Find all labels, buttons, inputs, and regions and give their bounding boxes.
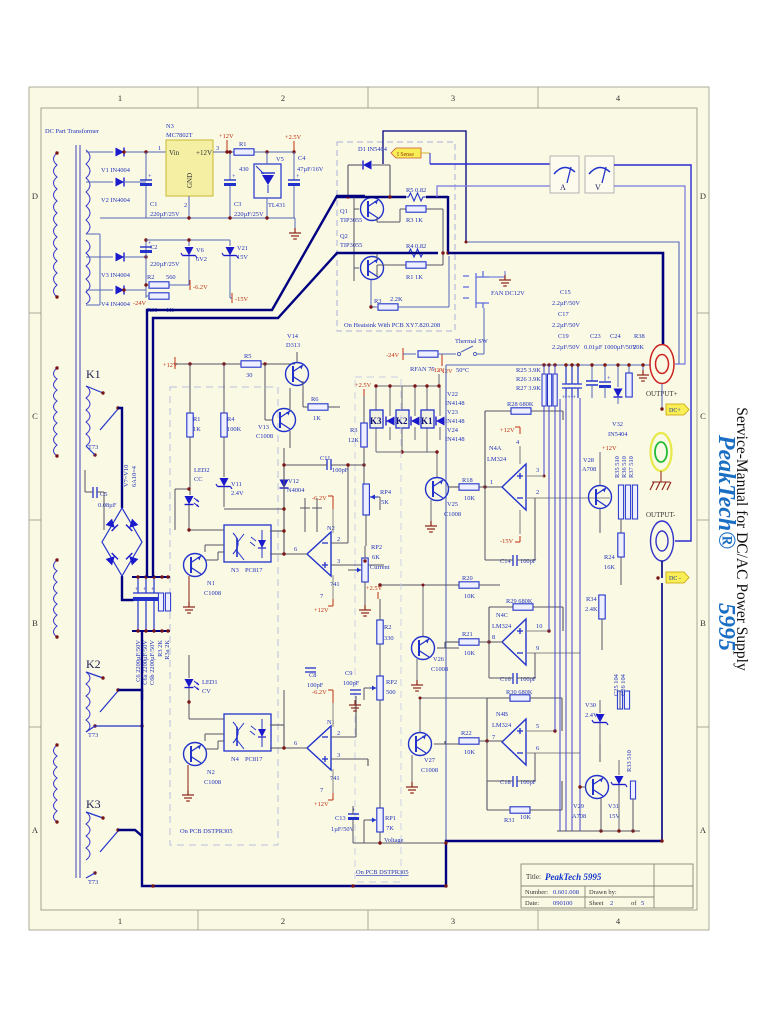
svg-text:PeakTech 5995: PeakTech 5995	[545, 872, 602, 882]
svg-text:LM324: LM324	[492, 722, 512, 729]
svg-text:+: +	[143, 586, 147, 593]
svg-text:D1 IN5404: D1 IN5404	[358, 146, 388, 153]
svg-text:C9: C9	[345, 670, 352, 677]
bridge diodes	[106, 519, 118, 531]
diode V12 N4004	[280, 480, 289, 489]
electrolytic caps C6 C6a C6b	[133, 577, 159, 631]
svg-text:N4C: N4C	[496, 612, 508, 619]
svg-text:5: 5	[536, 723, 539, 730]
svg-text:R3 1K: R3 1K	[406, 217, 423, 224]
svg-text:Number:: Number:	[525, 889, 548, 896]
resistor R2 560	[149, 282, 169, 288]
svg-text:T73: T73	[88, 732, 98, 739]
svg-text:A708: A708	[572, 813, 586, 820]
svg-text:+12V: +12V	[196, 149, 212, 157]
cap C23	[591, 365, 593, 381]
wire box to R1	[213, 151, 294, 153]
bus bank to bottom rail	[142, 631, 663, 886]
resistor R18 10K	[459, 484, 479, 490]
diode V4	[116, 286, 125, 295]
svg-text:-15V: -15V	[500, 538, 514, 545]
svg-text:6: 6	[536, 745, 539, 752]
svg-text:R4 0.82: R4 0.82	[406, 243, 426, 250]
svg-text:7K: 7K	[386, 825, 394, 832]
svg-text:100pF: 100pF	[520, 558, 537, 565]
svg-text:R20: R20	[462, 575, 473, 582]
svg-text:PC817: PC817	[245, 567, 263, 574]
resistor R2 330 (vertical)	[377, 620, 383, 644]
resistor R29 680K	[513, 604, 533, 610]
primary winding P1	[54, 153, 58, 297]
svg-text:PeakTech®: PeakTech®	[713, 434, 739, 549]
resistor R38 vertical	[626, 373, 632, 397]
resistor R31 10K	[510, 807, 530, 813]
op-amp N1 741 (lower)	[307, 726, 331, 770]
svg-text:Current: Current	[370, 564, 390, 571]
svg-text:C15: C15	[560, 289, 571, 296]
filter cap bank	[132, 577, 170, 631]
wire K1 to bridge	[118, 408, 134, 600]
svg-text:R5 0.82: R5 0.82	[406, 187, 426, 194]
op-amp N4B LM324	[502, 719, 526, 765]
diode V2	[116, 178, 125, 187]
zone numbers and letters	[32, 93, 707, 926]
svg-text:R1 1K: R1 1K	[406, 274, 423, 281]
svg-text:30: 30	[246, 372, 252, 379]
svg-text:RP4: RP4	[380, 489, 392, 496]
dashed box control left	[170, 387, 278, 845]
svg-text:RP1: RP1	[385, 815, 396, 822]
svg-text:C4: C4	[298, 155, 306, 162]
svg-text:TIP3055: TIP3055	[340, 242, 362, 249]
svg-text:R3: R3	[374, 298, 381, 305]
resistors R25 R26 R27 vertical	[542, 374, 546, 406]
svg-text:C25 104: C25 104	[613, 673, 620, 696]
svg-text:50°C: 50°C	[456, 367, 469, 374]
svg-text:330: 330	[384, 635, 394, 642]
wire output- down to DC-	[661, 561, 663, 578]
svg-text:N4A: N4A	[489, 445, 502, 452]
svg-text:C8: C8	[309, 672, 316, 679]
ground N1	[188, 576, 190, 602]
svg-text:5995: 5995	[713, 603, 739, 651]
svg-text:100pF: 100pF	[332, 467, 349, 474]
svg-text:741: 741	[330, 581, 340, 588]
svg-text:N1: N1	[327, 719, 335, 726]
resistor R21 10K	[459, 639, 479, 645]
svg-text:1: 1	[118, 916, 122, 926]
svg-text:+2.5V: +2.5V	[355, 382, 372, 389]
svg-text:R37 510: R37 510	[628, 456, 635, 478]
svg-text:10K: 10K	[464, 749, 475, 756]
svg-text:V3 IN4004: V3 IN4004	[101, 272, 131, 279]
transistor V27 C1008	[409, 733, 432, 756]
svg-text:-6.2V: -6.2V	[312, 689, 327, 696]
ammeter A	[550, 156, 579, 193]
resistor R1 1K (vertical)	[187, 413, 193, 437]
vertical sense buses	[544, 398, 580, 831]
svg-text:C2: C2	[150, 244, 157, 251]
svg-text:3: 3	[216, 145, 219, 152]
svg-text:2: 2	[536, 489, 539, 496]
svg-text:20K: 20K	[633, 344, 644, 351]
svg-text:On PCB DSTPR305: On PCB DSTPR305	[356, 869, 409, 876]
transistor N2 C1008	[184, 743, 207, 766]
svg-text:V28: V28	[583, 457, 594, 464]
svg-text:2.4K: 2.4K	[585, 606, 598, 613]
svg-text:0.601.008: 0.601.008	[553, 889, 579, 896]
svg-text:V21: V21	[237, 245, 248, 252]
svg-text:V11: V11	[231, 481, 242, 488]
svg-text:On Heatsink With PCB XY7.820.2: On Heatsink With PCB XY7.820.208	[344, 322, 440, 329]
feedback R29 wires	[489, 607, 563, 642]
svg-text:N2: N2	[207, 769, 215, 776]
svg-text:2: 2	[337, 536, 340, 543]
svg-text:8: 8	[492, 634, 495, 641]
output+ node bus	[446, 364, 651, 366]
svg-text:K3: K3	[370, 416, 382, 426]
small ground	[349, 700, 361, 711]
svg-text:2: 2	[281, 93, 285, 103]
svg-text:1K: 1K	[193, 426, 201, 433]
svg-text:C1008: C1008	[421, 767, 438, 774]
svg-text:C14: C14	[500, 558, 511, 565]
svg-text:Sheet: Sheet	[589, 900, 604, 907]
svg-text:Q1: Q1	[340, 208, 348, 215]
wires opto N3	[189, 530, 224, 552]
OUTPUT+ terminal	[650, 345, 674, 384]
primary winding P3	[54, 560, 58, 637]
svg-text:R3 2K: R3 2K	[157, 640, 164, 657]
svg-text:of: of	[631, 900, 637, 907]
svg-text:2: 2	[337, 730, 340, 737]
svg-text:B: B	[32, 618, 38, 628]
svg-text:R4: R4	[227, 416, 235, 423]
svg-text:R2: R2	[147, 274, 154, 281]
svg-text:R34: R34	[586, 596, 597, 603]
ground rail	[100, 217, 295, 219]
svg-text:2.2µF/50V: 2.2µF/50V	[552, 300, 580, 307]
resistor R1 430	[234, 149, 254, 155]
svg-text:1: 1	[490, 479, 493, 486]
label -6.2V	[188, 256, 190, 285]
svg-text:Date:: Date:	[525, 900, 539, 907]
svg-text:C16: C16	[500, 676, 511, 683]
secondary winding S2	[86, 240, 90, 304]
svg-text:-15V: -15V	[235, 296, 249, 303]
svg-text:10K: 10K	[464, 593, 475, 600]
svg-text:IN4148: IN4148	[445, 418, 465, 425]
svg-text:C: C	[700, 411, 706, 421]
wire V meter to right bus	[614, 165, 691, 541]
optocoupler N4 PC817	[224, 714, 271, 751]
svg-text:R31: R31	[504, 817, 515, 824]
svg-text:+: +	[135, 586, 139, 593]
svg-text:C19: C19	[558, 333, 569, 340]
svg-text:V30: V30	[585, 702, 596, 709]
svg-text:+2.5V: +2.5V	[285, 134, 302, 141]
svg-text:R33 510: R33 510	[626, 750, 633, 772]
diode V3	[116, 253, 125, 262]
resistors R3 R3a bleed	[158, 593, 163, 611]
svg-text:-6.2V: -6.2V	[312, 495, 327, 502]
svg-text:V7~V10: V7~V10	[123, 465, 130, 487]
dashed heatsink box	[337, 142, 455, 331]
svg-text:+12V: +12V	[314, 801, 329, 808]
svg-text:5K: 5K	[381, 499, 389, 506]
shunt reg V5 TL431	[254, 164, 281, 198]
svg-text:C11: C11	[320, 455, 330, 462]
svg-text:C1008: C1008	[431, 666, 448, 673]
resistor R3 2.2K	[378, 304, 398, 310]
svg-text:100pF: 100pF	[520, 779, 537, 786]
secondary winding S1	[86, 150, 90, 234]
resistor R5 30	[241, 361, 261, 367]
svg-text:R38: R38	[634, 333, 645, 340]
svg-text:100pF: 100pF	[343, 680, 360, 687]
svg-text:K2: K2	[396, 416, 408, 426]
svg-text:V23: V23	[447, 409, 458, 416]
wire V meter lower to output+	[614, 186, 685, 364]
bus diagonal pair from Q1/Q2	[147, 196, 438, 577]
secondary taps wires to rectifier diodes	[86, 152, 113, 305]
DC+ tag	[666, 404, 689, 415]
svg-text:10: 10	[536, 623, 542, 630]
transistor V13 C1008	[273, 409, 296, 432]
svg-text:3: 3	[337, 558, 340, 565]
svg-text:100K: 100K	[227, 426, 242, 433]
svg-text:47µF/16V: 47µF/16V	[297, 166, 324, 173]
bottom thin rail	[557, 830, 640, 832]
svg-text:-6.2V: -6.2V	[193, 284, 208, 291]
ground N2	[187, 765, 189, 790]
svg-text:6: 6	[294, 740, 297, 747]
svg-text:D: D	[700, 191, 706, 201]
svg-text:0.08µF: 0.08µF	[98, 502, 117, 509]
svg-text:+12V: +12V	[602, 445, 617, 452]
relay rail	[376, 386, 440, 460]
svg-text:IN4148: IN4148	[445, 436, 465, 443]
primary winding P2	[54, 368, 58, 456]
svg-text:1: 1	[118, 93, 122, 103]
svg-text:C1008: C1008	[444, 511, 461, 518]
svg-text:1µF/50V: 1µF/50V	[331, 826, 355, 833]
schematic sheet	[29, 87, 709, 930]
capacitor C1 220uF/25V	[145, 152, 147, 180]
transistor N1 C1008	[184, 554, 207, 577]
op-amp N4A LM324	[502, 464, 526, 510]
svg-text:-24V: -24V	[133, 300, 147, 307]
svg-text:C1008: C1008	[204, 590, 221, 597]
transistor Q1 TIP3055	[361, 198, 384, 221]
svg-text:K3: K3	[86, 797, 101, 811]
resistor R4 0.82 (zigzag)	[406, 249, 426, 257]
svg-text:T73: T73	[88, 879, 98, 886]
svg-text:V12: V12	[288, 478, 299, 485]
ground	[294, 218, 296, 230]
svg-text:1: 1	[158, 145, 161, 152]
svg-text:K2: K2	[86, 657, 101, 671]
svg-text:R2: R2	[384, 624, 391, 631]
wire top of C2/V6/V21 row	[146, 239, 230, 241]
wires opto N4	[189, 690, 284, 741]
svg-text:R30 680K: R30 680K	[506, 689, 533, 696]
svg-text:C1008: C1008	[204, 779, 221, 786]
svg-text:V13: V13	[258, 424, 269, 431]
svg-text:K1: K1	[86, 367, 101, 381]
caps on -6.2V rail	[300, 498, 322, 532]
base wires	[354, 196, 443, 281]
title block	[521, 864, 693, 908]
svg-text:2.2K: 2.2K	[390, 296, 403, 303]
thick bus corner down	[447, 196, 449, 254]
svg-text:V29: V29	[573, 803, 584, 810]
wires rectifier outputs to +12V bus	[124, 152, 166, 298]
svg-text:2.2µF/50V: 2.2µF/50V	[552, 344, 580, 351]
I Sense flag	[391, 148, 421, 158]
svg-text:On PCB DSTPR305: On PCB DSTPR305	[180, 828, 233, 835]
svg-text:C18: C18	[500, 779, 511, 786]
primary winding P4	[54, 745, 58, 822]
K2 winding	[86, 672, 90, 732]
voltmeter tap	[437, 186, 550, 197]
wires N1 741	[270, 696, 368, 766]
svg-text:DC -: DC -	[669, 576, 681, 582]
voltmeter V	[585, 156, 614, 193]
resistor R1 1K	[406, 262, 426, 268]
svg-text:V26: V26	[433, 656, 444, 663]
resistor RFAN 75	[418, 351, 438, 357]
svg-text:CV: CV	[202, 688, 211, 695]
svg-text:R26 3.9K: R26 3.9K	[516, 376, 541, 383]
optocoupler N3 PC817	[224, 525, 271, 562]
zone tick marks top	[29, 87, 709, 930]
svg-text:Drawn by:: Drawn by:	[589, 889, 617, 896]
svg-text:10K: 10K	[520, 814, 531, 821]
resistor R39 1K	[149, 293, 169, 299]
svg-text:430: 430	[239, 166, 249, 173]
svg-text:6: 6	[294, 546, 297, 553]
return wire down right of V25	[445, 365, 447, 841]
ground at output+	[642, 365, 644, 371]
svg-text:2.2µF/50V: 2.2µF/50V	[552, 322, 580, 329]
resistor R28 680K	[511, 408, 531, 414]
svg-text:3: 3	[451, 916, 455, 926]
svg-text:+12V: +12V	[314, 607, 329, 614]
svg-text:6K: 6K	[372, 554, 380, 561]
K1 contact	[86, 386, 118, 430]
transistor V25 C1008	[426, 478, 449, 501]
svg-text:C1008: C1008	[256, 433, 273, 440]
svg-text:CC: CC	[194, 476, 203, 483]
svg-text:2: 2	[610, 900, 613, 907]
svg-text:MC7802T: MC7802T	[166, 132, 193, 139]
zener V11 2.4V	[216, 478, 232, 489]
sense loop wire	[383, 131, 466, 242]
svg-text:N3: N3	[231, 567, 239, 574]
svg-text:V32: V32	[612, 421, 623, 428]
transistor V29 A708	[586, 776, 609, 799]
capacitor C2 220uF/25V	[145, 240, 147, 246]
svg-text:+ + +: + + +	[562, 394, 576, 401]
svg-text:V6: V6	[196, 247, 204, 254]
wire mid sense to output bus	[466, 242, 679, 364]
svg-text:12K: 12K	[348, 437, 359, 444]
svg-text:Voltage: Voltage	[384, 837, 404, 844]
K3 contact	[86, 812, 118, 852]
svg-text:16K: 16K	[604, 564, 615, 571]
svg-text:LED2: LED2	[194, 467, 210, 474]
svg-text:V5: V5	[276, 156, 284, 163]
K3 winding	[86, 812, 90, 860]
svg-text:N2: N2	[327, 525, 335, 532]
svg-text:090100: 090100	[553, 900, 573, 907]
svg-text:A708: A708	[582, 466, 596, 473]
svg-text:K1: K1	[421, 416, 433, 426]
svg-text:A: A	[32, 825, 39, 835]
svg-text:R1: R1	[193, 416, 200, 423]
svg-text:6V2: 6V2	[196, 256, 207, 263]
resistor pair above V29	[617, 691, 622, 709]
transistor Q2 TIP3055	[361, 257, 384, 280]
svg-text:100pF: 100pF	[307, 682, 324, 689]
svg-text:LM324: LM324	[487, 456, 507, 463]
transistor V14 D313	[286, 363, 309, 386]
svg-text:R35 510: R35 510	[614, 456, 621, 478]
svg-text:B: B	[700, 618, 706, 628]
svg-text:A: A	[560, 183, 566, 192]
svg-text:R28 680K: R28 680K	[507, 401, 534, 408]
dots on bank rails	[136, 575, 139, 578]
svg-text:3: 3	[536, 467, 539, 474]
op-amp N4C LM324	[502, 619, 526, 665]
diode V32 IN5404 (down)	[617, 365, 619, 387]
wire K2/K3 junction rail	[95, 725, 142, 727]
label -15V	[231, 293, 233, 303]
earth ground symbol	[660, 471, 662, 482]
resistor R33	[630, 781, 635, 799]
svg-text:C13: C13	[335, 815, 346, 822]
resistor R34 2.4K	[599, 595, 605, 619]
svg-text:IN5404: IN5404	[608, 431, 628, 438]
svg-text:R6: R6	[311, 396, 318, 403]
diode V22	[386, 417, 395, 426]
svg-text:R5: R5	[244, 353, 251, 360]
resistor R3 12K	[361, 423, 367, 447]
junction dots on bus	[542, 363, 545, 366]
svg-text:C1: C1	[150, 201, 157, 208]
svg-text:DC Part Transformer: DC Part Transformer	[45, 128, 100, 135]
transistor V26 C1008	[412, 637, 435, 660]
svg-text:+: +	[151, 586, 155, 593]
svg-text:GND: GND	[186, 173, 194, 188]
svg-text:V2 IN4004: V2 IN4004	[101, 197, 131, 204]
svg-text:R25 3.9K: R25 3.9K	[516, 367, 541, 374]
svg-text:Vin: Vin	[169, 149, 180, 157]
film caps cluster C15 C17 C19	[562, 365, 582, 398]
svg-text:+12V: +12V	[430, 367, 445, 374]
wire I sense to ammeter	[430, 163, 550, 165]
svg-text:2.4V: 2.4V	[585, 712, 598, 719]
ground RP2	[359, 605, 371, 616]
thick emitter bus Q1	[337, 196, 406, 198]
relay K3	[370, 410, 383, 428]
svg-text:TIP3055: TIP3055	[340, 217, 362, 224]
op-amp N2 741 (upper)	[307, 532, 331, 576]
svg-text:10K: 10K	[464, 495, 475, 502]
resistor R22 10K	[459, 738, 479, 744]
capacitor C3 220uF/25V	[229, 152, 231, 180]
